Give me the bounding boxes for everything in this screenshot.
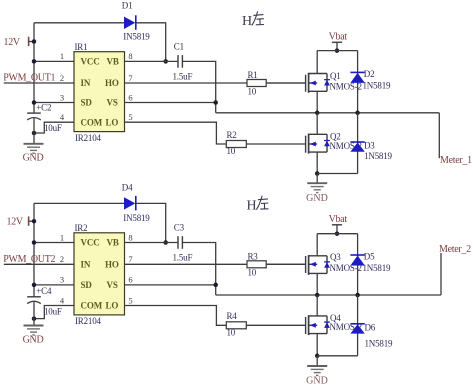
- wire pin 2 (PWM_OUT2): [4, 263, 74, 265]
- wire pin 3 (SD): [34, 102, 74, 104]
- transistor Q3 NMOS-2 (high side): [266, 234, 362, 295]
- svg-text:Meter_1: Meter_1: [440, 155, 472, 166]
- svg-text:COM: COM: [81, 301, 103, 311]
- wire pin 6 (VS): [125, 284, 216, 286]
- svg-text:7: 7: [128, 73, 132, 83]
- pin numbers: [60, 51, 133, 122]
- node COM junction: [32, 316, 37, 321]
- svg-text:D1: D1: [122, 1, 133, 11]
- svg-text:D5: D5: [364, 252, 375, 262]
- wire source node: [317, 173, 357, 175]
- svg-text:1.5uF: 1.5uF: [173, 72, 193, 82]
- svg-text:Q1: Q1: [330, 71, 341, 81]
- svg-text:H: H: [242, 14, 252, 29]
- svg-text:COM: COM: [81, 117, 103, 127]
- svg-text:VCC: VCC: [81, 57, 100, 67]
- net label PWM_OUT1: [3, 73, 55, 84]
- wire VB cap to VS: [182, 243, 215, 296]
- node VB junction: [163, 59, 168, 64]
- diode D4 (IN5819): [122, 183, 150, 224]
- node pin1 junction: [32, 240, 37, 245]
- svg-text:12V: 12V: [7, 217, 24, 228]
- node VS junction: [213, 283, 218, 288]
- diode D6 1N5819 (across Q4): [350, 295, 393, 356]
- power port Vbat: [329, 214, 348, 234]
- diode D2 1N5819 (across Q1): [350, 51, 391, 113]
- node pin3 junction: [32, 100, 37, 105]
- svg-text:7: 7: [128, 254, 132, 264]
- svg-text:SD: SD: [81, 98, 93, 108]
- node phase-Q junction: [315, 293, 320, 298]
- net label Meter_2: [439, 244, 471, 255]
- title H-bridge label 2: [247, 196, 269, 214]
- capacitor C3 1.5uF (pin 8 VB): [125, 223, 193, 263]
- ground (H-bridge): [306, 174, 328, 204]
- svg-text:GND: GND: [306, 376, 328, 387]
- wire VB cap to VS: [182, 61, 215, 112]
- wire 12V rail (vertical): [33, 23, 35, 113]
- svg-text:D4: D4: [122, 183, 133, 193]
- svg-text:HO: HO: [105, 260, 119, 270]
- IC IR1 IR2104: [74, 42, 125, 143]
- net label PWM_OUT2: [3, 254, 55, 265]
- svg-text:3: 3: [60, 275, 64, 285]
- svg-text:2: 2: [60, 73, 64, 83]
- resistor R4 10 (pin 5 LO): [125, 306, 247, 338]
- ground (left): [23, 144, 44, 164]
- svg-text:5: 5: [128, 112, 132, 122]
- svg-text:IR1: IR1: [75, 42, 88, 52]
- svg-text:PWM_OUT2: PWM_OUT2: [3, 254, 55, 265]
- svg-text:1: 1: [60, 51, 64, 61]
- svg-text:Q3: Q3: [330, 252, 341, 262]
- svg-text:D6: D6: [365, 322, 376, 332]
- svg-text:IR2104: IR2104: [75, 133, 102, 143]
- wire 12V rail (vertical): [33, 203, 35, 296]
- svg-text:IR2: IR2: [75, 223, 88, 233]
- svg-text:2: 2: [60, 254, 64, 264]
- wire H-bridge top rail: [317, 50, 357, 52]
- node Vbat junction: [335, 231, 340, 236]
- svg-text:R2: R2: [227, 130, 237, 140]
- diode D5 1N5819 (across Q3): [350, 234, 391, 295]
- svg-text:VS: VS: [107, 280, 118, 290]
- wire phase node rail: [216, 294, 441, 296]
- svg-text:IR2104: IR2104: [75, 316, 102, 326]
- svg-text:1N5819: 1N5819: [363, 263, 391, 273]
- node source junction: [315, 171, 320, 176]
- node pin3 junction: [32, 283, 37, 288]
- transistor Q1 NMOS-2 (high side): [266, 51, 362, 113]
- wire pin 1 (VCC): [34, 242, 74, 244]
- svg-text:1N5819: 1N5819: [363, 81, 391, 91]
- svg-text:8: 8: [128, 51, 132, 61]
- diode D3 1N5819 (across Q2): [350, 113, 392, 174]
- svg-text:R4: R4: [227, 311, 238, 321]
- svg-text:GND: GND: [306, 193, 328, 204]
- svg-text:1.5uF: 1.5uF: [173, 253, 193, 263]
- wire pin 4 (COM) return: [34, 306, 74, 319]
- svg-text:10uF: 10uF: [44, 123, 62, 133]
- svg-text:D3: D3: [364, 141, 375, 151]
- power port Vbat: [329, 32, 348, 51]
- node COM junction: [32, 131, 37, 136]
- node pin1 junction: [32, 59, 37, 64]
- node source junction: [315, 354, 320, 359]
- resistor R1 10 (pin 7 HO): [125, 70, 306, 96]
- svg-text:1: 1: [60, 232, 64, 242]
- wire H-bridge top rail: [317, 233, 357, 235]
- wire pin 6 (VS): [125, 102, 216, 104]
- wire D4 cathode to VB: [136, 203, 166, 242]
- svg-text:+C4: +C4: [36, 286, 52, 296]
- wire phase node rail: [216, 112, 440, 114]
- capacitor C4 10uF: [27, 286, 62, 325]
- title H-bridge label 1: [242, 11, 264, 29]
- svg-text:R3: R3: [248, 251, 259, 261]
- svg-text:6: 6: [128, 92, 132, 102]
- wire pin 4 (COM) return: [34, 122, 74, 133]
- node VB junction: [163, 240, 168, 245]
- svg-text:Vbat: Vbat: [329, 32, 348, 43]
- svg-text:1N5819: 1N5819: [364, 151, 392, 161]
- svg-text:4: 4: [60, 112, 65, 122]
- node VS junction: [213, 100, 218, 105]
- svg-text:+C2: +C2: [36, 103, 51, 113]
- svg-text:IN5819: IN5819: [123, 32, 150, 42]
- svg-text:5: 5: [128, 295, 132, 305]
- svg-text:10uF: 10uF: [44, 307, 62, 317]
- node phase-D junction: [355, 293, 360, 298]
- node 12V junction: [32, 219, 37, 224]
- svg-text:HO: HO: [105, 78, 119, 88]
- svg-text:GND: GND: [23, 334, 44, 345]
- svg-text:R1: R1: [248, 70, 258, 80]
- svg-text:C3: C3: [174, 223, 185, 233]
- svg-text:VB: VB: [107, 238, 119, 248]
- node Vbat junction: [335, 48, 340, 53]
- diode D1 (IN5819): [122, 1, 150, 42]
- capacitor C1 1.5uF (pin 8 VB): [125, 42, 193, 82]
- svg-text:LO: LO: [106, 301, 119, 311]
- wire pin 1 (VCC): [34, 60, 74, 62]
- svg-text:IN5819: IN5819: [123, 213, 150, 223]
- svg-text:LO: LO: [106, 117, 119, 127]
- net label Meter_1: [440, 155, 472, 166]
- transistor Q2 NMOS-2 (low side): [246, 113, 362, 174]
- svg-text:10: 10: [227, 146, 236, 156]
- svg-text:SD: SD: [81, 280, 93, 290]
- svg-text:6: 6: [128, 275, 132, 285]
- svg-text:IN: IN: [81, 260, 91, 270]
- svg-text:10: 10: [248, 86, 257, 96]
- svg-text:10: 10: [227, 328, 236, 338]
- svg-text:VS: VS: [107, 98, 118, 108]
- capacitor C2 10uF: [27, 103, 62, 144]
- svg-text:Vbat: Vbat: [329, 214, 348, 225]
- wire Meter_1: [438, 113, 440, 158]
- svg-text:8: 8: [128, 232, 132, 242]
- transistor Q4 NMOS-2 (low side): [246, 295, 362, 356]
- wire Meter_2: [440, 253, 442, 295]
- svg-text:VB: VB: [107, 57, 119, 67]
- node phase-Q junction: [315, 111, 320, 116]
- svg-text:3: 3: [60, 92, 64, 102]
- wire top rail to D1: [34, 22, 124, 24]
- svg-text:C1: C1: [174, 42, 184, 52]
- power port 12V: [4, 37, 35, 48]
- power port 12V: [7, 216, 35, 227]
- svg-text:PWM_OUT1: PWM_OUT1: [3, 73, 55, 84]
- svg-text:IN: IN: [81, 78, 91, 88]
- svg-text:Meter_2: Meter_2: [439, 244, 471, 255]
- svg-text:10: 10: [248, 268, 257, 278]
- wire top rail to D4: [34, 202, 124, 204]
- IC IR2 IR2104: [74, 223, 125, 326]
- node phase-D junction: [355, 111, 360, 116]
- node 12V junction: [32, 39, 37, 44]
- svg-text:4: 4: [60, 295, 65, 305]
- svg-text:1N5819: 1N5819: [365, 338, 393, 348]
- resistor R3 10 (pin 7 HO): [125, 251, 306, 277]
- wire source node: [317, 355, 357, 357]
- svg-text:H: H: [247, 199, 257, 214]
- ground (H-bridge): [306, 356, 328, 387]
- svg-text:12V: 12V: [4, 37, 21, 48]
- wire D1 cathode to VB: [136, 23, 166, 62]
- svg-text:D2: D2: [364, 69, 375, 79]
- pin numbers: [60, 232, 133, 305]
- ground (left): [23, 326, 44, 346]
- wire pin 2 (PWM_OUT1): [4, 82, 74, 84]
- svg-text:VCC: VCC: [81, 238, 100, 248]
- resistor R2 10 (pin 5 LO): [125, 122, 247, 156]
- wire pin 3 (SD): [34, 284, 74, 286]
- svg-text:GND: GND: [23, 153, 44, 164]
